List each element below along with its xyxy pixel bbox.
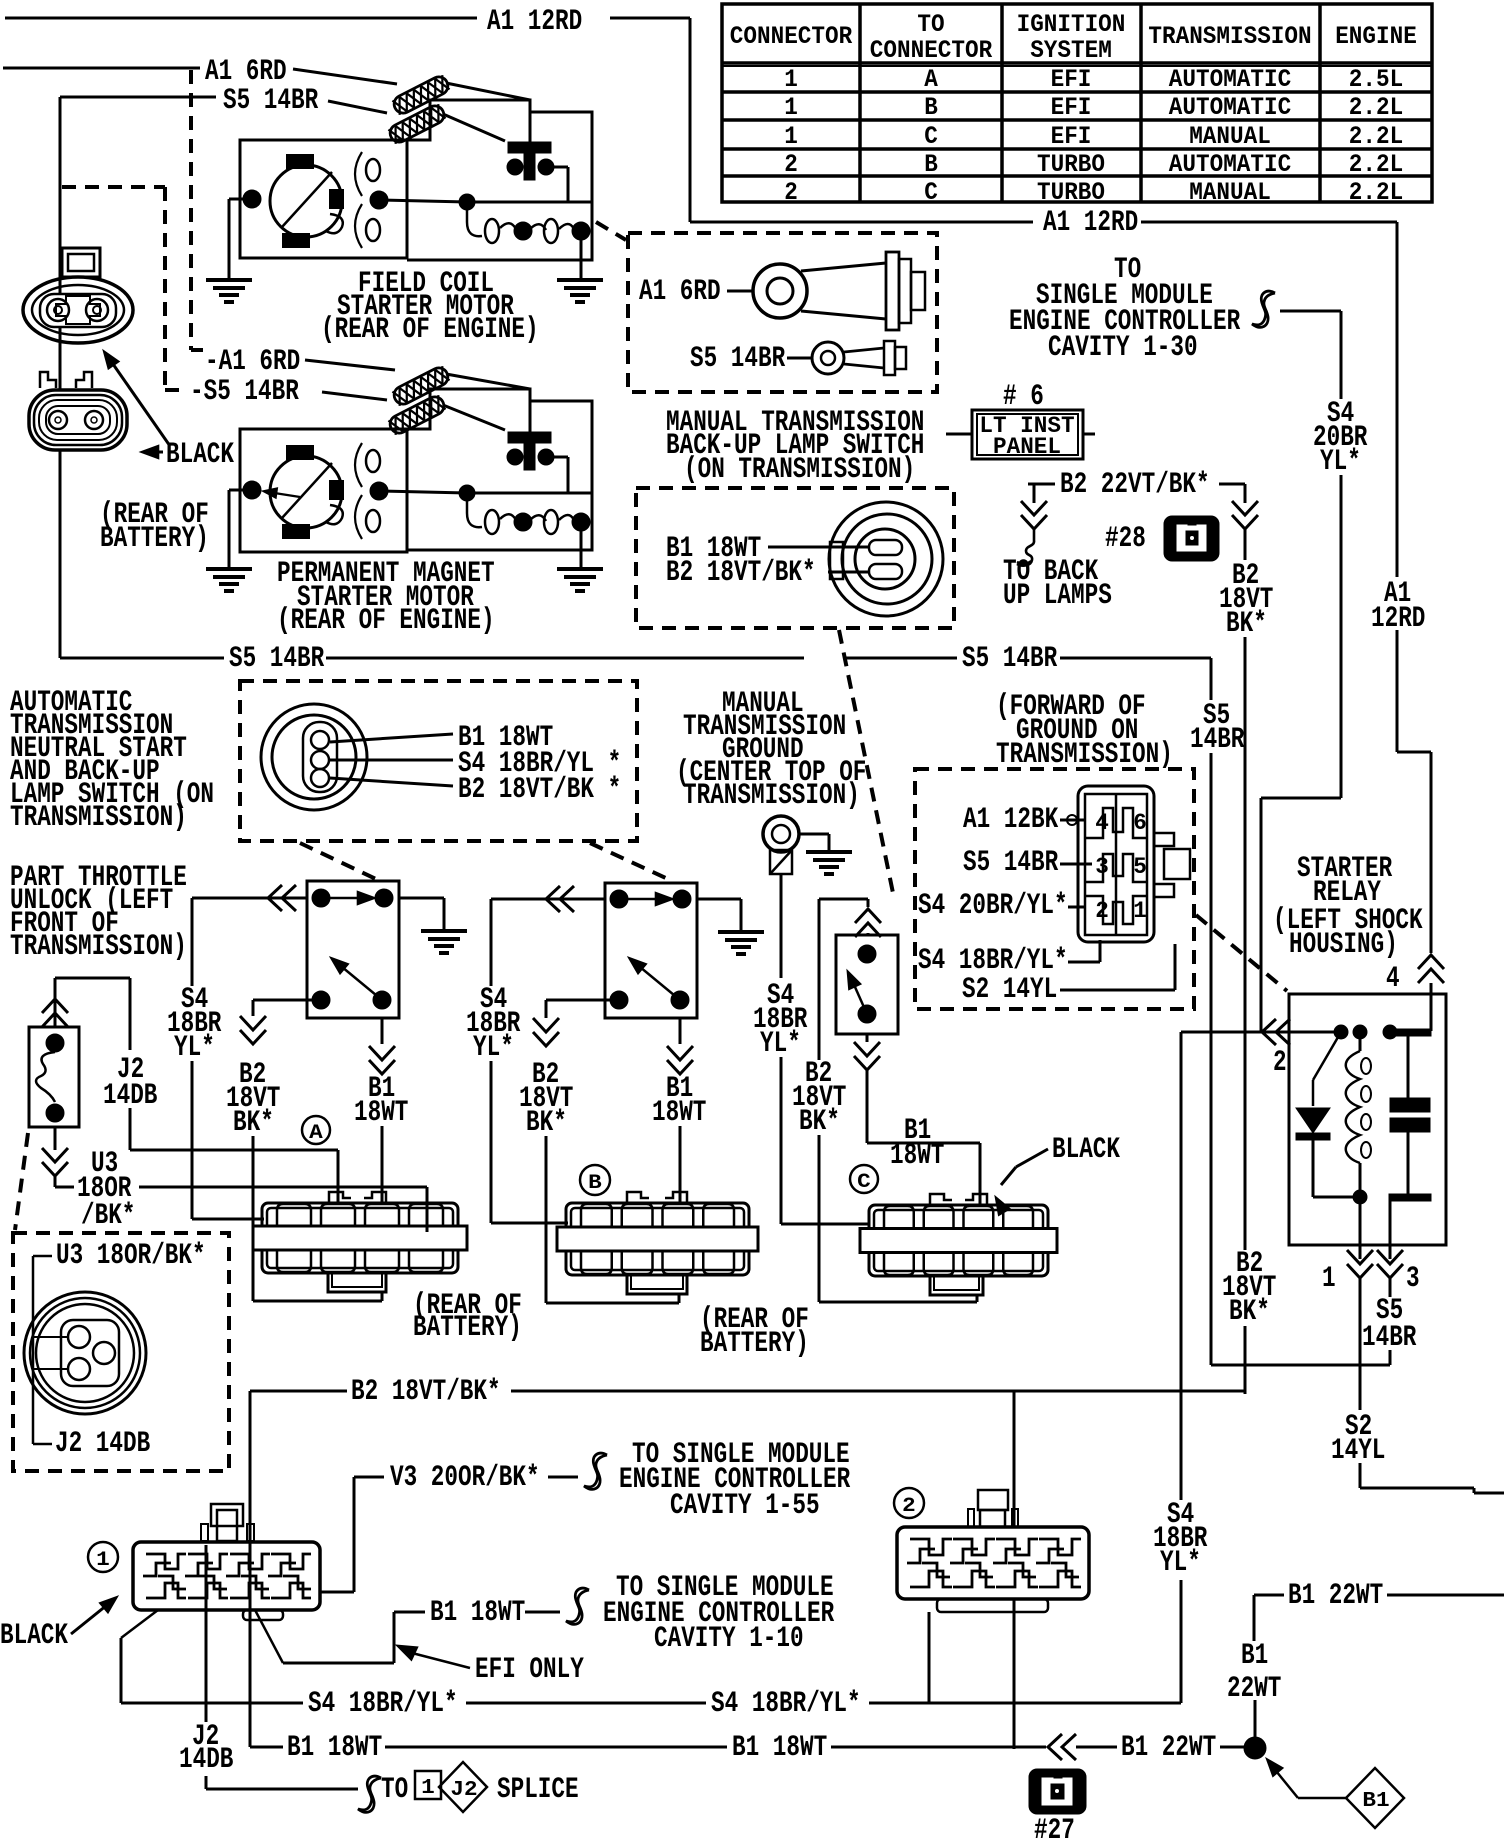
svg-text:S5 14BR: S5 14BR [690,342,785,376]
harness connector 1 [133,1542,320,1610]
wire pin 3 to S5 bus [1389,1278,1392,1297]
svg-text:4: 4 [1386,962,1400,996]
svg-text:6: 6 [1133,810,1147,836]
svg-text:TO: TO [917,10,944,39]
svg-text:2: 2 [902,1495,916,1518]
crimp splice A1 6RD motor2 [391,365,451,407]
wire label to small ring [787,357,812,360]
svg-text:TRANSMISSION): TRANSMISSION) [10,930,187,964]
svg-text:AUTOMATIC: AUTOMATIC [1169,65,1291,94]
svg-text:YL*: YL* [473,1031,514,1065]
6-way connector maze [1085,794,1147,934]
wire A1 12RD to relay pin 4 [1396,630,1399,752]
wire A1 12RD top [5,17,477,20]
svg-text:1: 1 [784,122,798,151]
svg-text:BK*: BK* [233,1106,274,1140]
svg-text:B1 22WT: B1 22WT [1121,1731,1216,1765]
circled B [580,1165,610,1195]
wire A1 12RD under table [690,221,1033,224]
crimp splice S5 14BR motor1 [387,103,447,145]
svg-text:B2 22VT/BK*: B2 22VT/BK* [1060,468,1210,502]
wire V3 20OR/BK* [320,1591,354,1594]
arrow EFI ONLY [396,1645,418,1661]
svg-text:14YL: 14YL [1331,1434,1385,1468]
connector 2 top tabs [978,1490,1008,1510]
squiggle to back up lamps [1017,529,1034,566]
wire solenoid bottom [54,1127,57,1150]
wire to ground 1 [229,198,252,201]
commutator dot 2 [243,481,261,499]
wire T2 to top [529,401,532,432]
wire splice to solenoid 1 [446,83,530,100]
wire switch A to ground [399,897,444,900]
solenoid 2 plunger T symbol [508,432,551,443]
svg-text:B1: B1 [1362,1790,1389,1813]
in-line connector B1 [1048,1734,1062,1760]
oval connector lower tabs [40,372,56,388]
svg-text:B2 18VT/BK *: B2 18VT/BK * [458,773,621,807]
junction dot solenoid 1 [459,194,475,210]
svg-text:#27: #27 [1034,1814,1075,1840]
svg-text:18WT: 18WT [652,1096,706,1130]
svg-text:BK*: BK* [526,1106,567,1140]
connector 1 top tabs [211,1504,243,1526]
wire B2 A to connector A tab [252,1136,255,1301]
harness connector C [869,1205,1048,1276]
in-line connector B2 A [240,1030,266,1044]
wire S5 14BR bus to corner [1060,657,1211,660]
svg-text:B1 18WT: B1 18WT [732,1731,827,1765]
svg-text:MANUAL: MANUAL [1189,178,1271,207]
svg-text:TRANSMISSION): TRANSMISSION) [996,738,1173,772]
svg-text:1: 1 [784,93,798,122]
brace cavity 1-10 [566,1588,589,1624]
brush springs 2 [366,450,380,472]
svg-text:2.2L: 2.2L [1349,93,1403,122]
wire S5 to relay pin 3 horizontal [1211,1364,1390,1367]
svg-text:EFI: EFI [1051,93,1092,122]
wire S5 14BR lower to splice [322,392,387,400]
wire A1 6RD to splice [293,69,397,84]
brace splice [358,1776,381,1812]
table variant chart [722,4,1432,202]
svg-text:BLACK: BLACK [0,1619,68,1653]
ground solenoid 2 [557,567,603,571]
junction dot B1 [1244,1737,1266,1759]
svg-text:1: 1 [784,65,798,94]
wire U3 to connector A right [139,1186,427,1189]
circled C [850,1165,878,1193]
wire 18BR to pin 2 [1068,961,1100,964]
svg-text:TO: TO [381,1773,408,1807]
svg-text:YL*: YL* [1160,1546,1201,1580]
svg-text:C: C [924,122,938,151]
wire S5 14BR bus middle [326,657,804,660]
svg-text:1: 1 [1322,1262,1336,1296]
wire diode to bottom [1312,1140,1315,1197]
solenoid 2 enclosure [407,389,592,550]
dashed box U3 connector [13,1233,229,1471]
wire S5 14BR to pin 3 [1060,863,1092,866]
wire into switch C top [819,898,868,901]
solenoid coil 1 [467,202,574,236]
wire S5 14BR bus left [59,655,62,658]
fuse block LT INST PANEL [946,433,972,436]
round connector (part throttle) [24,1292,146,1414]
harness connector 2 [897,1527,1089,1599]
wire A1 6RD top [3,67,200,70]
junction dot solenoid 2 [459,485,475,501]
svg-text:BLACK: BLACK [1052,1133,1120,1167]
harness connector A [262,1203,458,1273]
wire contact to coil 1 [553,166,568,169]
motor2 terminal dot [370,482,388,500]
wire A1 12RD to table corner [610,17,690,20]
label J2 14DB in box [33,1443,52,1446]
wire S4 vertical [1180,1580,1183,1703]
svg-text:S5 14BR: S5 14BR [229,642,324,676]
wire B1 from connector 2 [1013,1599,1016,1749]
svg-text:PANEL: PANEL [993,434,1061,460]
wire J2 14DB [55,977,130,980]
wire B1 A to connector A [381,1126,384,1205]
svg-text:B1 22WT: B1 22WT [1288,1579,1383,1613]
wire A1 12RD right segment [1141,221,1397,224]
wire pin to B2 label [330,778,453,786]
wire S5 14BR vertical right [1210,753,1213,1365]
dashed leader part throttle to U3 box [15,1133,28,1230]
in-line connector relay pin 2 [1262,1019,1276,1045]
svg-text:#28: #28 [1105,522,1146,556]
svg-text:1: 1 [421,1777,435,1800]
in-line connector switch A [268,885,282,911]
wire relay pin 3 [1389,1201,1392,1245]
wire S4 into relay pin 2 [1181,1031,1341,1034]
svg-text:A1 12RD: A1 12RD [1043,206,1138,240]
wire motor1 to solenoid junction [379,200,467,202]
in-line connector switch B [546,886,560,912]
back-up switch C box [836,935,898,1034]
relay coil [1359,1032,1362,1051]
svg-text:4: 4 [1095,810,1109,836]
wire B2 C to connector C tab [818,1135,821,1302]
arrow BLACK to connector C [1016,1149,1048,1167]
arrow BLACK to lower connector [146,451,163,454]
wire B1 switch A [381,1018,384,1044]
wire to slot2 [828,571,869,574]
svg-text:J2 14DB: J2 14DB [55,1427,150,1461]
grommet symbol #27 [1029,1769,1086,1814]
ring terminal S5 14BR [812,342,844,374]
wire S4 20BR/YL* down [1340,475,1343,798]
svg-text:B1: B1 [1241,1639,1268,1673]
svg-text:S5 14BR: S5 14BR [963,846,1058,880]
wire B2 18VT/BK* switch C [818,899,821,1060]
ground motor1 left [206,278,252,282]
svg-text:14BR: 14BR [1362,1321,1416,1355]
brush pads 1 [287,155,313,168]
wire A1 12BK to pin 4 [1060,819,1085,822]
neutral switch A box [307,881,399,1018]
svg-text:TURBO: TURBO [1037,150,1105,179]
svg-text:3: 3 [1406,1262,1420,1296]
wire J2 to connector A [129,1108,132,1150]
svg-text:14BR: 14BR [1190,723,1244,757]
wire into switch A top [192,897,307,900]
wire S4 20BR/YL* from cavity 1-30 [1280,310,1341,313]
solenoid 1 plunger T symbol [508,142,551,153]
svg-text:YL*: YL* [760,1027,801,1061]
svg-text:A1 12RD: A1 12RD [487,5,582,39]
ground switch A [421,929,467,933]
in-line connector part throttle top [42,999,68,1013]
dashed leader backup switch to circuit C [839,630,893,893]
wire B1 B to connector B [679,1126,682,1205]
label U3 18OR/BK* [33,1255,52,1258]
6-way connector body [1078,786,1154,942]
svg-text:TURBO: TURBO [1037,178,1105,207]
dashed callout S5 14BR [62,185,165,189]
6-way connector side tabs [1154,833,1174,846]
svg-text:2: 2 [1095,898,1109,924]
dashed leader to terminal box [596,222,626,240]
svg-text:S4 18BR/YL*: S4 18BR/YL* [308,1687,458,1721]
ground solenoid 1 [557,278,603,282]
connector 2 bottom tab [937,1599,1048,1612]
splice diamond J2 [439,1762,487,1812]
svg-text:J2: J2 [450,1779,477,1802]
dashed leader to switch B [590,843,670,880]
oval connector (rear of battery) upper [23,277,133,343]
svg-text:2.2L: 2.2L [1349,178,1403,207]
dashed box neutral start switch [240,681,637,841]
in-line connector B2 right [1232,515,1258,529]
wire eyelet to ground [799,833,829,836]
circled 2 [894,1488,924,1518]
ground eyelet [763,816,799,852]
arrow BLACK to connector 1 [71,1601,112,1634]
svg-text:EFI ONLY: EFI ONLY [475,1653,584,1687]
armature 1 [270,165,342,237]
in-line connector B2 B [533,1032,559,1046]
part throttle unlock solenoid [29,1027,79,1127]
svg-text:B: B [924,93,938,122]
svg-text:2.2L: 2.2L [1349,122,1403,151]
ring terminal A1 6RD [753,264,807,318]
brush springs 1 [366,159,380,181]
wire S4 18BR/YL* switch B down [490,899,493,986]
dashed box forward of ground [915,769,1194,1009]
in-line connector pin 1 [1347,1264,1373,1278]
in-line connector B1 C [854,1056,880,1070]
svg-text:2.5L: 2.5L [1349,65,1403,94]
svg-text:S5 14BR: S5 14BR [223,84,318,118]
svg-text:ENGINE: ENGINE [1335,22,1417,51]
svg-text:3: 3 [1095,854,1109,880]
neutral start switch connector circles [261,704,367,810]
dashed box back-up lamp switch [636,488,954,628]
crimp splice S5 14BR motor2 [387,394,447,436]
relay diode [1296,1108,1330,1133]
circled 1 [88,1542,118,1572]
wire B2 horizontal bottom [250,1390,347,1393]
svg-text:2.2L: 2.2L [1349,150,1403,179]
svg-text:B2 18VT/BK*: B2 18VT/BK* [351,1375,501,1409]
wire into switch B top [491,898,605,901]
svg-text:2: 2 [1273,1046,1287,1080]
svg-text:S4 20BR/YL*: S4 20BR/YL* [918,889,1068,923]
oval connector top tab [62,248,100,277]
svg-text:U3 18OR/BK*: U3 18OR/BK* [56,1239,206,1273]
wire B1 18WT bottom [249,1610,252,1747]
wire B1 switch C [866,1034,869,1042]
connector 1 bottom tab [243,1610,283,1620]
wire splice2 to solenoid 1 [443,114,505,141]
svg-text:B2 18VT/BK*: B2 18VT/BK* [666,556,816,590]
in-line connector B1 A [369,1060,395,1074]
wire S4 18BR/YL* from connector 1 [121,1610,158,1638]
svg-text:BATTERY): BATTERY) [100,522,209,556]
svg-text:(REAR OF ENGINE): (REAR OF ENGINE) [321,313,539,347]
switch B contact arrow [628,898,668,901]
svg-text:CAVITY 1-10: CAVITY 1-10 [654,1622,804,1656]
svg-text:HOUSING): HOUSING) [1289,928,1398,962]
dashed leader to relay [1196,915,1287,991]
starter motor 2 case [240,429,407,552]
wire S4 B to connector B [490,1061,493,1223]
in-line connector chevrons pin 4 [1418,955,1444,969]
wire S5 14BR vertical to oval connectors [59,97,62,655]
wire splice2 to solenoid 2 [443,405,505,430]
wire S2 14YL to pin 1 [1060,989,1175,992]
ground switch B [718,930,764,934]
switch A blade arrow [336,962,382,1000]
svg-text:(REAR OF ENGINE): (REAR OF ENGINE) [277,604,495,638]
svg-text:BLACK: BLACK [166,438,234,472]
armature 2 [270,456,342,528]
arrow B1 diamond to junction [1298,1797,1346,1800]
svg-text:14DB: 14DB [179,1743,233,1777]
svg-text:-S5 14BR: -S5 14BR [190,375,299,409]
bracket line U3 [32,1256,35,1444]
diamond B1 [1346,1768,1404,1828]
wire to slot1 [768,546,869,549]
wire S4 to connector C [780,1057,783,1224]
in-line connector B1 B [667,1060,693,1074]
magnet arrow 2 [268,492,300,497]
wire coil2 to ground [580,522,583,567]
wire B2 18VT/BK* through connector 1 [249,1541,252,1610]
motor1 terminal dot [370,191,388,209]
svg-text:A1 12BK: A1 12BK [963,803,1058,837]
relay capacitor branch [1389,1029,1431,1036]
svg-text:TRANSMISSION): TRANSMISSION) [10,801,187,835]
svg-text:/BK*: /BK* [81,1199,135,1233]
in-line connector pin 3 [1377,1264,1403,1278]
svg-text:MANUAL: MANUAL [1189,122,1271,151]
wire B2 switch A [253,999,321,1002]
wires to round connector pins [33,1336,68,1338]
wire B2 18VT/BK* vertical [1244,529,1247,560]
ground manual transmission [806,850,852,854]
wire S4 18BR/YL* switch A down [191,898,194,986]
wire coil1 to ground [580,231,583,278]
svg-text:V3 20OR/BK*: V3 20OR/BK* [390,1461,540,1495]
wire B2 into connector 2 [1013,1391,1016,1527]
switch B blade arrow [634,962,680,1000]
svg-text:BK*: BK* [1229,1295,1270,1329]
dashed leader to switch A [300,843,378,880]
in-line connector part throttle bottom [42,1162,68,1176]
dashed box ring terminals [628,233,937,392]
svg-text:YL*: YL* [174,1031,215,1065]
svg-text:2: 2 [784,150,798,179]
svg-text:CONNECTOR: CONNECTOR [870,36,992,65]
wire T to top [529,112,532,142]
wire B1 switch B [679,1018,682,1044]
starter relay box [1289,994,1446,1245]
wire relay pin 1 [1359,1197,1362,1245]
wire S5 14BR to splice [328,101,387,113]
wire U3 18OR/BK* [54,1176,57,1187]
svg-text:CAVITY 1-30: CAVITY 1-30 [1048,331,1198,365]
back-up lamp switch connector circles [829,502,943,616]
arrow BLACK to upper connector [106,354,170,446]
wire switch B to ground [697,898,741,901]
svg-text:UP LAMPS: UP LAMPS [1003,579,1112,613]
in-line connector to back-up lamps [1021,515,1047,529]
svg-text:B1 18WT: B1 18WT [287,1731,382,1765]
solenoid coil 2 [467,493,574,527]
ground motor2 left [206,567,252,571]
svg-text:18WT: 18WT [354,1096,408,1130]
svg-text:CAVITY 1-55: CAVITY 1-55 [670,1489,820,1523]
svg-text:AUTOMATIC: AUTOMATIC [1169,150,1291,179]
wire S5 14BR top [60,96,216,99]
svg-text:14DB: 14DB [103,1079,157,1113]
switch C blade arrow [851,978,867,1014]
svg-text:YL*: YL* [1320,445,1361,479]
wire J2 through connector 1 [205,1545,208,1610]
svg-text:18WT: 18WT [890,1139,944,1173]
relay contact dots [1334,1025,1348,1039]
wire pin to S4 label [330,759,453,762]
svg-text:B: B [588,1172,602,1195]
wire B1 C to connector C [866,1070,869,1143]
in-line connector switch C [855,909,881,923]
svg-text:BK*: BK* [799,1105,840,1139]
dashed callout A1 6RD [189,70,193,350]
svg-text:SYSTEM: SYSTEM [1030,36,1112,65]
svg-text:S2 14YL: S2 14YL [962,973,1057,1007]
svg-text:S4 18BR/YL*: S4 18BR/YL* [711,1687,861,1721]
svg-text:BATTERY): BATTERY) [700,1327,809,1361]
wire B2 switch B [546,999,619,1002]
neutral switch B box [605,883,697,1018]
wire solenoid top [54,997,57,1027]
wire B1 18WT cavity 1-10 [255,1610,283,1663]
wire bracket B2 22VT/BK* [1028,483,1055,486]
wire A1 6RD lower to splice [305,360,395,370]
brace cavity 1-30 [1252,291,1275,327]
wire J2 to splice [205,1610,208,1722]
grommet symbol #28 [1164,516,1219,561]
svg-text:(ON TRANSMISSION): (ON TRANSMISSION) [684,453,915,487]
svg-text:BK*: BK* [1226,607,1267,641]
wire S4 A to connector A [191,1061,194,1219]
svg-text:C: C [857,1171,871,1194]
svg-text:EFI: EFI [1051,122,1092,151]
